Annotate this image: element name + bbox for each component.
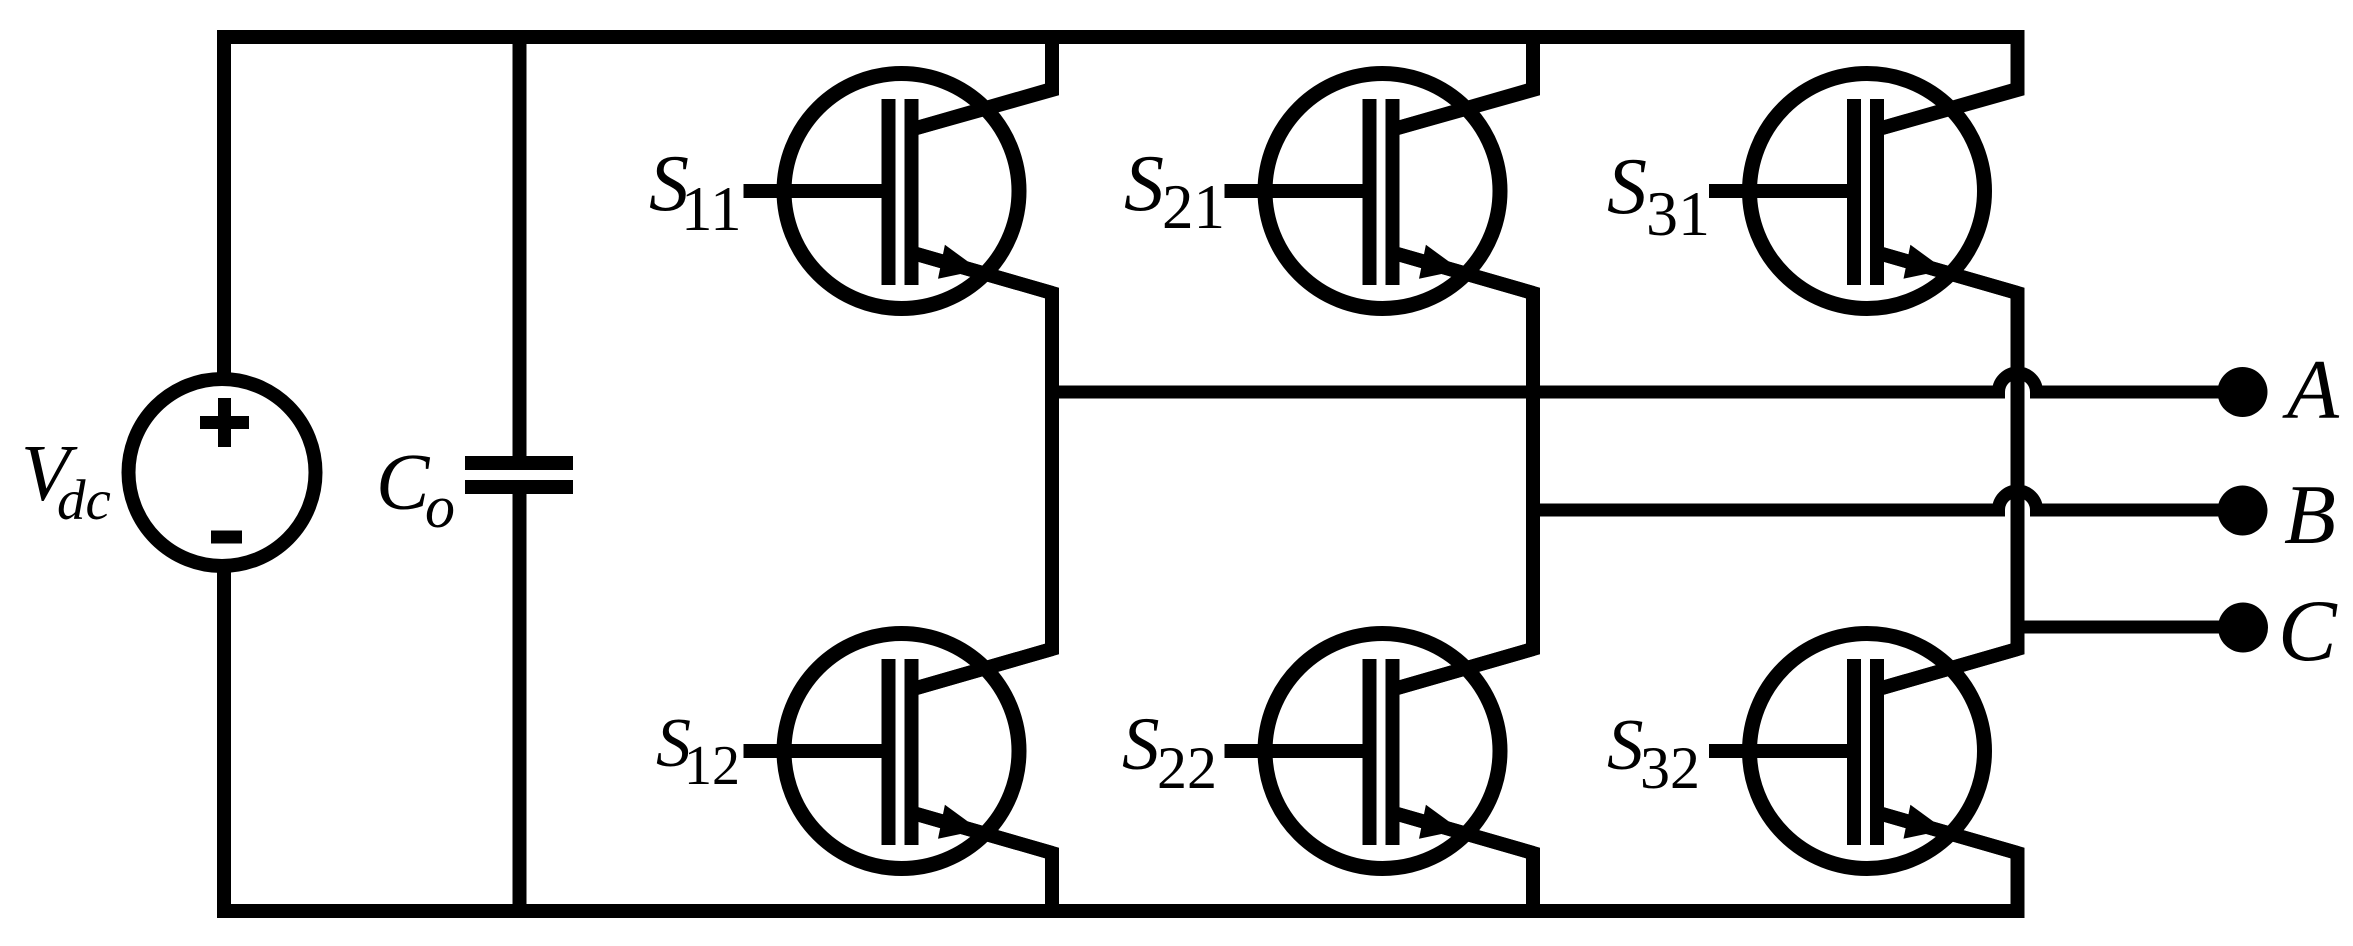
S11 body circle xyxy=(784,74,1019,309)
S12 body circle xyxy=(784,634,1019,869)
S12 emitter lead xyxy=(910,812,1053,853)
S31 emitter arrow xyxy=(1904,245,1946,279)
S21 body circle xyxy=(1265,74,1500,309)
S22 gate bar xyxy=(1363,659,1377,845)
wire phase C line xyxy=(2018,621,2244,634)
svg-text:S: S xyxy=(1124,140,1164,228)
wire leg 1 midpoint vertical xyxy=(910,252,1053,690)
transistor S32 xyxy=(1709,634,2018,869)
svg-text:A: A xyxy=(2282,343,2340,437)
transistor S11 xyxy=(744,74,1053,309)
S31 body circle xyxy=(1750,74,1985,309)
Co bottom plate xyxy=(465,480,573,494)
svg-text:C: C xyxy=(2278,583,2338,680)
S12 emitter arrow xyxy=(938,805,980,839)
Co bottom lead wire xyxy=(513,494,527,911)
wire phase B line xyxy=(1531,491,2242,510)
S22 collector lead xyxy=(1391,649,1534,690)
svg-text:32: 32 xyxy=(1640,735,1700,801)
S12 gate lead wire xyxy=(744,744,896,758)
S12 gate bar xyxy=(882,659,896,845)
S31 gate bar xyxy=(1847,99,1861,285)
S11 gate lead wire xyxy=(744,184,896,198)
wire leg 1 top collector drop xyxy=(910,37,1053,130)
S21 emitter lead xyxy=(1391,252,1534,293)
transistor S21 xyxy=(1225,74,1534,309)
S32 emitter lead xyxy=(1875,812,2018,853)
wire leg 3 top collector drop xyxy=(1875,37,2018,130)
S22 emitter lead xyxy=(1391,812,1534,853)
wire leg 3 bottom emitter drop xyxy=(1875,812,2018,911)
transistor S12 xyxy=(744,634,1053,869)
S11 channel bar xyxy=(905,99,919,285)
S22 emitter arrow xyxy=(1419,805,1461,839)
S21 channel bar xyxy=(1386,99,1400,285)
capacitor Co xyxy=(465,30,573,911)
S22 gate lead wire xyxy=(1225,744,1377,758)
Vdc minus sign xyxy=(211,531,242,544)
S32 gate lead wire xyxy=(1709,744,1861,758)
node A terminal dot xyxy=(2218,367,2268,417)
svg-text:S: S xyxy=(1607,704,1644,785)
Co top lead wire xyxy=(513,30,527,456)
wire leg 2 bottom emitter drop xyxy=(1391,812,1534,911)
S31 gate lead wire xyxy=(1709,184,1861,198)
node B terminal dot xyxy=(2218,486,2268,536)
wire leg 2 midpoint vertical xyxy=(1391,252,1534,690)
wire leg 3 midpoint vertical xyxy=(1875,252,2018,690)
S21 gate lead wire xyxy=(1225,184,1377,198)
transistor S31 xyxy=(1709,74,2018,309)
svg-text:12: 12 xyxy=(684,735,740,797)
S32 collector lead xyxy=(1875,649,2018,690)
svg-text:dc: dc xyxy=(57,469,111,532)
S11 emitter lead xyxy=(910,252,1053,293)
Co top plate xyxy=(465,456,573,470)
svg-text:B: B xyxy=(2284,468,2336,562)
svg-text:S: S xyxy=(1122,703,1160,786)
wire bottom DC bus xyxy=(224,568,2018,911)
wire top DC bus xyxy=(224,37,2018,373)
S32 emitter arrow xyxy=(1904,805,1946,839)
S21 collector lead xyxy=(1391,89,1534,130)
svg-text:21: 21 xyxy=(1162,172,1225,242)
svg-text:11: 11 xyxy=(681,174,742,244)
S11 collector lead xyxy=(910,89,1053,130)
svg-text:C: C xyxy=(376,439,431,527)
wire phase A line xyxy=(1051,373,2242,392)
S31 emitter lead xyxy=(1875,252,2018,293)
Vdc plus sign xyxy=(200,416,249,429)
S12 channel bar xyxy=(905,659,919,845)
S11 emitter arrow xyxy=(938,245,980,279)
wire leg 1 bottom emitter drop xyxy=(910,812,1053,911)
S22 body circle xyxy=(1265,634,1500,869)
svg-text:31: 31 xyxy=(1646,178,1710,249)
S32 body circle xyxy=(1750,634,1985,869)
S12 collector lead xyxy=(910,649,1053,690)
svg-text:S: S xyxy=(1607,143,1647,231)
transistor S22 xyxy=(1225,634,1534,869)
node C terminal dot xyxy=(2218,603,2268,653)
S21 emitter arrow xyxy=(1419,245,1461,279)
voltage source Vdc xyxy=(129,379,316,566)
svg-text:o: o xyxy=(425,474,455,540)
Vdc circle xyxy=(129,379,316,566)
S32 channel bar xyxy=(1870,659,1884,845)
svg-text:22: 22 xyxy=(1157,735,1217,801)
S22 channel bar xyxy=(1386,659,1400,845)
S11 gate bar xyxy=(882,99,896,285)
S32 gate bar xyxy=(1847,659,1861,845)
S31 channel bar xyxy=(1870,99,1884,285)
S21 gate bar xyxy=(1363,99,1377,285)
S31 collector lead xyxy=(1875,89,2018,130)
wire leg 2 top collector drop xyxy=(1391,37,1534,130)
